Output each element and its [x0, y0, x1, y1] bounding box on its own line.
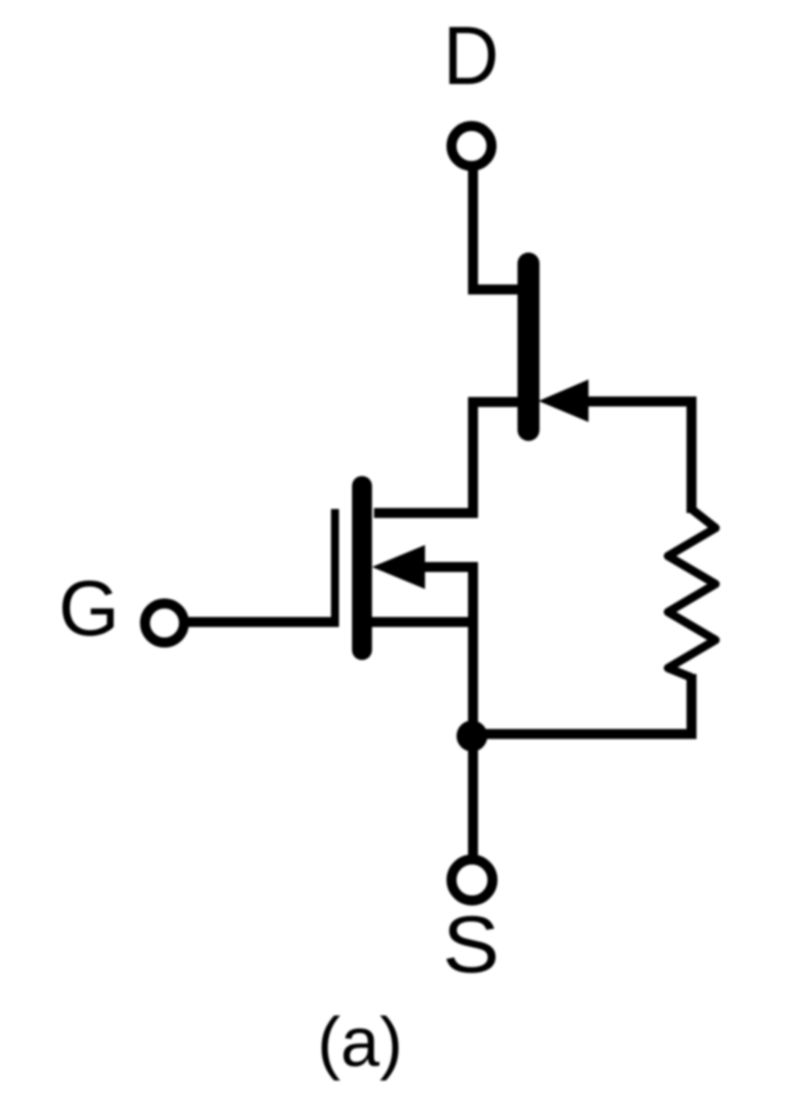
svg-text:G: G	[59, 564, 120, 652]
resistor R1	[668, 509, 716, 678]
svg-text:(a): (a)	[317, 1003, 403, 1081]
transistor Q1 channel bar (upper JFET-style device)	[518, 264, 540, 431]
terminal circle G	[145, 604, 184, 643]
wire: Q1 gate to resistor top	[584, 402, 692, 514]
wire: resistor bottom down and left to source node	[472, 674, 692, 734]
transistor Q2 gate electrode line	[331, 509, 339, 627]
wire: Q2 body arrow right, down through source to junction	[420, 567, 473, 736]
wire: Q1 left at gate-level, down to Q2 drain stub	[374, 402, 526, 513]
svg-text:D: D	[443, 9, 499, 102]
svg-text:S: S	[443, 900, 500, 990]
wire: D terminal down and elbow right to upper transistor channel	[473, 167, 522, 290]
wire: junction down to S terminal	[468, 736, 478, 856]
transistor Q1 gate arrow (points left into channel)	[539, 380, 589, 423]
terminal circle S	[452, 860, 493, 901]
node: source junction dot	[457, 721, 488, 752]
transistor Q2 channel bar (lower MOSFET)	[352, 486, 372, 650]
transistor Q2 body arrow (points left into channel)	[372, 545, 425, 589]
terminal circle D	[452, 126, 492, 166]
wire: G terminal to Q2 gate	[183, 617, 339, 627]
wire: Q2 source stub	[371, 617, 477, 627]
